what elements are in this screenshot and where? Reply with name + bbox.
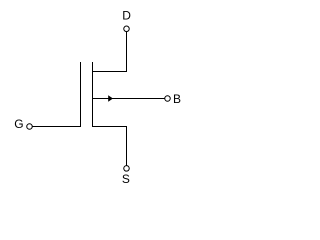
N-channel MOSFET 4-terminal symbol (D, G, S, B) <box>0 0 193 199</box>
pin circle D <box>124 26 130 32</box>
gate plate (vertical bar) <box>80 62 82 127</box>
svg-text:S: S <box>122 172 130 186</box>
svg-text:D: D <box>122 9 131 23</box>
pin circle B <box>165 96 171 102</box>
channel plate (vertical bar) <box>92 62 94 127</box>
svg-text:B: B <box>173 92 181 106</box>
pin circle S <box>124 166 130 172</box>
wire drain horizontal <box>92 71 127 73</box>
arrowhead on bulk wire (points right) <box>108 95 113 102</box>
wire gate horizontal <box>33 126 81 128</box>
svg-text:G: G <box>14 117 23 131</box>
pin circle G <box>27 124 33 130</box>
wire drain vertical <box>126 32 128 72</box>
wire source vertical <box>126 127 128 166</box>
wire bulk horizontal <box>93 98 165 100</box>
wire source horizontal <box>92 126 127 128</box>
